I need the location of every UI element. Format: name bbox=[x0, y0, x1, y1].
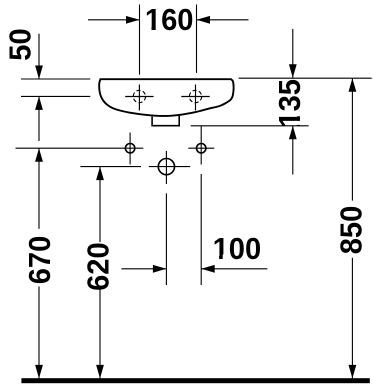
svg-text:850: 850 bbox=[335, 206, 369, 255]
svg-text:50: 50 bbox=[4, 28, 38, 60]
svg-text:670: 670 bbox=[23, 236, 57, 285]
svg-text:100: 100 bbox=[213, 232, 262, 266]
svg-text:135: 135 bbox=[273, 79, 307, 128]
svg-text:620: 620 bbox=[82, 242, 116, 291]
svg-text:160: 160 bbox=[145, 3, 194, 37]
